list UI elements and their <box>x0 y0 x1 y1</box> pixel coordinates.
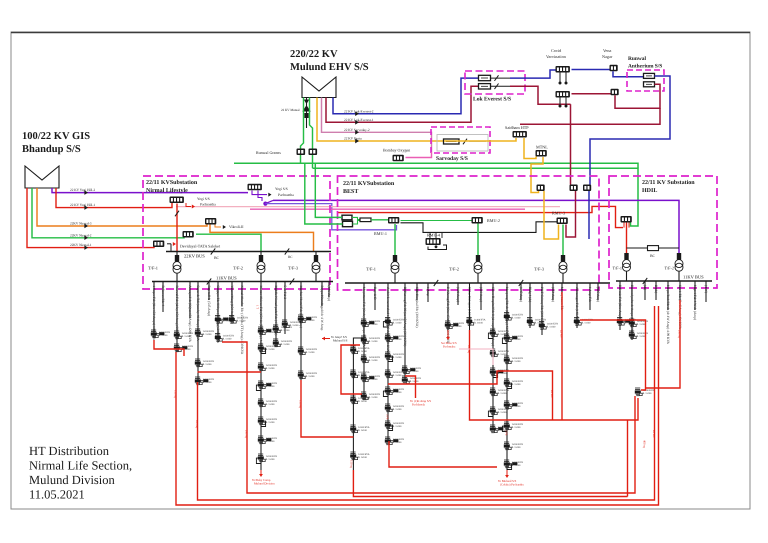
feeder H3 <box>643 281 647 300</box>
svg-text:Nil ps Tmb Fdr dr (dr 4W Amp): Nil ps Tmb Fdr dr (dr 4W Amp) 4.99 KVA <box>666 285 670 345</box>
svg-text:5 dr Fdr 2: 5 dr Fdr 2 <box>283 286 287 300</box>
red tie vertical 562 <box>561 292 563 420</box>
svg-text:R. 1x100: R. 1x100 <box>203 363 213 366</box>
svg-text:Pachraetha: Pachraetha <box>200 203 216 207</box>
wire green RMU-1 to RMU-2 <box>401 220 472 222</box>
svg-text:T/F-1: T/F-1 <box>612 266 622 271</box>
wire 22 KV Lok-Everest-2 (blue) <box>333 78 479 114</box>
connector Vena Nagar 2 <box>611 89 619 96</box>
feeder B14 Bldg 4 <box>527 283 547 328</box>
bus 11KV BUS Nirmal <box>152 281 333 283</box>
RMU-4 <box>426 238 441 245</box>
net red 22KV link to HDIL substation <box>337 206 623 227</box>
red tie y467 <box>389 441 497 467</box>
svg-text:R. 1x100: R. 1x100 <box>266 421 276 424</box>
wire maroon down to BEST connector <box>570 104 572 184</box>
substation box Runwal Anthorium (dashed) <box>627 70 664 91</box>
red tie Nirmal small A <box>154 340 184 356</box>
pins HDIL connector <box>624 223 629 228</box>
svg-text:Vena: Vena <box>603 48 612 53</box>
svg-text:R. 1x100: R. 1x100 <box>498 411 508 414</box>
feeder N9 Nirmal Absolut Fdr <box>240 282 244 355</box>
switch BEST incomer 2 <box>343 221 353 226</box>
svg-text:R. 1x100: R. 1x100 <box>498 392 508 395</box>
svg-text:22 KV Lok-Everest-1: 22 KV Lok-Everest-1 <box>344 118 374 122</box>
feeder N6 Rup taff & <box>207 282 211 317</box>
net pink feeder link 1 (salmon) <box>176 206 560 208</box>
svg-text:Rup taff & (545 Amp): Rup taff & (545 Amp) <box>207 286 211 317</box>
connector MTNL <box>536 150 547 157</box>
red tie col301 to branch353 <box>301 380 353 437</box>
transformer T/F-3 BEST <box>562 225 564 256</box>
svg-text:B (dr): B (dr) <box>654 285 658 293</box>
svg-text:Runwal Greens: Runwal Greens <box>256 150 281 155</box>
net 22KV green bus upper (green) <box>234 163 638 168</box>
connector Covid Vaccination 1 <box>556 66 570 73</box>
svg-text:11KV BUS: 11KV BUS <box>683 275 704 280</box>
svg-text:BEST: BEST <box>343 189 358 195</box>
svg-text:Vikroli-II: Vikroli-II <box>229 225 244 229</box>
wire blue Covid to Vena <box>572 69 611 71</box>
feeder N3 Ronwal Fdr <box>174 282 194 353</box>
feeder N5 Super dr Tdi <box>195 282 215 385</box>
red tie Nirmal long y372 <box>198 371 262 373</box>
svg-text:T/F-3: T/F-3 <box>534 267 545 272</box>
feeder H8 <box>704 281 708 302</box>
feeder N13 Mayfair Hostel Fdr <box>298 282 318 381</box>
wire green fuse to RMU-1 <box>371 219 388 221</box>
feeder B8 <box>456 283 460 305</box>
red arrow Nirmal deep feeder <box>260 470 262 474</box>
svg-text:Roy dr B: Roy dr B <box>373 287 377 300</box>
svg-text:Sarvoday S/S: Sarvoday S/S <box>436 156 468 162</box>
feeder B10 <box>479 283 483 310</box>
svg-text:R. 1x100: R. 1x100 <box>410 380 420 383</box>
red continuation of branch 353 to bottom ring <box>353 470 627 497</box>
feeder B15 P&T Colony Fdr <box>539 283 559 335</box>
svg-text:Puppu Khandagadd dr 4 W Amp: Puppu Khandagadd dr 4 W Amp <box>320 286 324 331</box>
svg-text:Amrapali dr (SQ as 150Amp) 420: Amrapali dr (SQ as 150Amp) 4200 KVA <box>188 286 192 343</box>
svg-text:(4 W): (4 W) <box>704 285 708 293</box>
wire maroon connector to RMU-3 <box>566 191 576 237</box>
svg-text:22 KV Mutual: 22 KV Mutual <box>281 108 300 112</box>
wire block E to 22KV bus <box>167 243 171 245</box>
svg-text:Mulund Division: Mulund Division <box>29 473 116 487</box>
feeder H4 B <box>654 281 658 300</box>
wire 22 KV Yogi Hill-2 (purple) <box>52 188 248 193</box>
substation box Nirmal Lifestyle (dashed) <box>143 176 330 289</box>
feeder B9 Cyber Dd sqmt <box>466 283 486 330</box>
feeder B13 <box>519 283 523 302</box>
svg-text:R. 1x100: R. 1x100 <box>306 375 316 378</box>
svg-text:22 KV Pantu: 22 KV Pantu <box>344 137 362 141</box>
wire pink Sarvoday to Bombay Oxygen <box>406 152 432 158</box>
feeder B20 <box>596 283 600 302</box>
svg-text:SRL Hospital Fdr (300 KVA): SRL Hospital Fdr (300 KVA) <box>415 287 419 328</box>
feeder H7 Nspt 1 Fdr 4 W dr <box>693 281 697 320</box>
svg-text:1 Amp Fdr: 1 Amp Fdr <box>588 287 592 303</box>
substation box Lok Everest S/S (dashed) <box>465 71 525 94</box>
RMU-2 <box>472 217 483 224</box>
svg-text:Yogi S/S: Yogi S/S <box>197 197 210 201</box>
transformer T/F-1 Nirmal <box>176 252 178 256</box>
svg-text:R.Sarees Fdr 4: R.Sarees Fdr 4 <box>161 286 165 307</box>
svg-text:HT Distribution: HT Distribution <box>29 444 110 458</box>
svg-text:Pachmaha: Pachmaha <box>443 345 456 349</box>
svg-text:T/F-1: T/F-1 <box>148 266 158 271</box>
svg-text:Mulund EHV S/S: Mulund EHV S/S <box>290 62 369 73</box>
wire 22 KV Lok-Everest-1 (maroon) <box>326 86 479 122</box>
svg-text:11.05.2021: 11.05.2021 <box>29 488 85 502</box>
svg-text:R. 1x100: R. 1x100 <box>393 321 403 324</box>
wire red HDIL to T/F-1 <box>626 223 628 254</box>
svg-text:22/11 KVSubstation: 22/11 KVSubstation <box>146 179 198 186</box>
feeder B4 Bi Kutong Fdr 86 <box>402 283 422 384</box>
net pink feeder link 2 (pink) <box>250 208 525 210</box>
svg-text:R. 1x100: R. 1x100 <box>498 353 508 356</box>
svg-text:Bi Kutong Fdr 86 (as 150Amp) (: Bi Kutong Fdr 86 (as 150Amp) (300 KVA) <box>403 287 407 346</box>
red arrow Sai Baba <box>447 330 449 337</box>
svg-text:100/22 KV GIS: 100/22 KV GIS <box>22 131 90 142</box>
svg-text:Mulund Division: Mulund Division <box>254 482 275 486</box>
connector Runwal Greens B <box>309 149 318 156</box>
svg-text:Vasant Marg (150 Amp): Vasant Marg (150 Amp) <box>230 286 234 319</box>
svg-text:R. 1x100: R. 1x100 <box>358 350 368 353</box>
svg-text:R. 1x100: R. 1x100 <box>637 323 647 326</box>
wire 22 KV Sarvoday-2 (pink) <box>322 98 432 153</box>
switch Runwal Anthorium 1 <box>644 73 655 78</box>
svg-text:22KV Nirmal-2: 22KV Nirmal-2 <box>70 233 92 237</box>
wire 22KV Nirmal-2 (green) <box>32 188 184 238</box>
svg-text:MTNL: MTNL <box>536 145 548 150</box>
wire maroon Covid2 to Vena2 <box>572 93 612 95</box>
svg-text:R. 1x100: R. 1x100 <box>358 456 368 459</box>
pins RMU-4 <box>430 232 442 238</box>
bus 22KV BUS Nirmal <box>166 251 331 253</box>
wire green incomer 2 <box>305 163 343 224</box>
switch Runwal Anthorium 2 <box>644 82 655 87</box>
svg-text:Ishapong Fdr dr (150 Amp) 430: Ishapong Fdr dr (150 Amp) 430 KVA <box>505 287 509 339</box>
svg-text:(100 Amp): (100 Amp) <box>456 287 460 302</box>
wire purple HDIL to T/F-2 joint <box>678 248 680 253</box>
bus 11KV BUS BEST <box>345 282 610 284</box>
svg-text:22/11 KV Substation: 22/11 KV Substation <box>642 179 695 186</box>
svg-text:Mulund S/S: Mulund S/S <box>333 339 348 343</box>
red arrow To Amps Mulund <box>322 337 325 341</box>
svg-text:3 Ph: 3 Ph <box>386 414 390 420</box>
pins Covid 1 <box>560 73 566 83</box>
svg-text:T/F-2: T/F-2 <box>233 266 243 271</box>
feeder N11 Middle Nirmal pada Fdr <box>273 282 293 348</box>
svg-text:R. 1x100: R. 1x100 <box>281 343 291 346</box>
feeder N2 R.Sarees Fdr 4 <box>161 282 165 313</box>
feeder B16 <box>551 283 555 302</box>
connector Devidayal (green fed) <box>183 231 194 238</box>
svg-text:RMU-4: RMU-4 <box>427 233 441 238</box>
svg-text:11KV BUS: 11KV BUS <box>216 276 237 281</box>
svg-text:1 Super Fdr (Occ 150 Amps) 100: 1 Super Fdr (Occ 150 Amps) 1000KVA <box>152 286 156 341</box>
transformer T/F-2 HDIL <box>677 253 681 260</box>
feeder N7 Singapu Fdr 900 ps <box>215 282 235 344</box>
svg-text:RMU-1: RMU-1 <box>374 231 387 236</box>
svg-text:(4 W Amp): (4 W Amp) <box>327 286 331 302</box>
svg-text:RMU-3: RMU-3 <box>552 211 565 216</box>
net purple 22KV link to HDIL <box>273 200 679 248</box>
feeder B2 Roy dr B <box>373 283 377 310</box>
connector Yogi S/S Pachraetha A (red fed) <box>170 197 184 204</box>
red cable size labels <box>174 305 682 468</box>
svg-text:T/F-2: T/F-2 <box>449 267 459 272</box>
wire Runwal Greens feeder B (green) <box>310 98 313 150</box>
svg-text:Bombay Oxygen: Bombay Oxygen <box>383 148 410 153</box>
switch Lok Everest feeder 1 (maroon row) <box>479 84 491 89</box>
transformer Mulund EHV <box>302 77 336 98</box>
svg-text:Nirmal Life Section,: Nirmal Life Section, <box>29 459 132 473</box>
wire gold Saidham to MTNL <box>524 138 536 159</box>
red arrow To Mulund receiving <box>506 470 508 475</box>
svg-text:3 Ph: 3 Ph <box>505 430 509 436</box>
svg-text:Pachbawla: Pachbawla <box>412 403 426 407</box>
svg-text:R. 1x100: R. 1x100 <box>393 356 403 359</box>
feeder H1 R.S min Fdr <box>617 281 637 330</box>
svg-text:Vaccination: Vaccination <box>546 54 567 59</box>
svg-text:220/22 KV: 220/22 KV <box>290 49 338 60</box>
svg-text:HDIL: HDIL <box>642 188 657 194</box>
connector BEST yellow incomer <box>537 185 545 192</box>
svg-text:Antherium S/S: Antherium S/S <box>628 64 662 70</box>
feeder B17 Moneytraum Fdr <box>560 283 564 311</box>
svg-text:400 sq: 400 sq <box>643 440 647 448</box>
wire orange to 22KV bus at TF-3 <box>210 225 314 252</box>
substation box BEST (dashed) <box>338 176 600 290</box>
wire maroon return west <box>520 108 660 124</box>
svg-text:R. 1x100: R. 1x100 <box>223 337 233 340</box>
cluster bottom junction near HDIL <box>635 388 655 396</box>
svg-text:R. 1x100: R. 1x100 <box>393 425 403 428</box>
svg-text:(Colaba) Pachandra: (Colaba) Pachandra <box>500 483 524 487</box>
svg-text:R. 1x100: R. 1x100 <box>266 367 276 370</box>
wire blue Vena to Runwal Anthorium <box>613 71 644 77</box>
substation box Sarvoday S/S (dashed) <box>431 127 490 153</box>
svg-text:Covid: Covid <box>551 48 562 53</box>
connector BEST blue incomer <box>583 185 591 192</box>
substation box HDIL (dashed) <box>609 176 717 288</box>
svg-text:R. 1x100: R. 1x100 <box>369 396 379 399</box>
svg-text:Annanagar Fdr (148 Amp): Annanagar Fdr (148 Amp) <box>575 287 579 324</box>
svg-text:(dr): (dr) <box>643 285 647 290</box>
wire black RMU chain <box>401 222 557 233</box>
svg-text:R. 1x100: R. 1x100 <box>266 403 276 406</box>
svg-text:1 T: 1 T <box>256 305 260 309</box>
switch Lok Everest feeder 2 (blue row) <box>479 75 491 80</box>
svg-text:R. 1x100: R. 1x100 <box>637 335 647 338</box>
wire purple B to junction <box>258 191 262 202</box>
transformer T/F-1 BEST <box>394 224 396 255</box>
bus coupler tie HDIL <box>627 247 680 249</box>
feeder N15 <box>327 282 331 302</box>
wire green D to bus at TF-2 <box>196 234 261 251</box>
svg-text:(147 Amp): (147 Amp) <box>519 287 523 302</box>
connector Runwal Greens A <box>297 149 306 156</box>
svg-text:22 KV Lok-Everest-2: 22 KV Lok-Everest-2 <box>344 109 374 113</box>
svg-text:R. 1x100: R. 1x100 <box>547 325 557 328</box>
feeder B18 Annanagar Fdr <box>574 283 594 328</box>
svg-text:Devidayal-TATA Saloket: Devidayal-TATA Saloket <box>180 244 221 249</box>
feeder B19 1 Amp Fdr <box>588 283 592 310</box>
wire 22KV Nirmal-3 (orange) <box>37 188 207 226</box>
svg-text:BC: BC <box>650 254 656 258</box>
svg-text:Runwal: Runwal <box>628 56 646 62</box>
red tie L1 TF-1 feeder to bottom ring <box>176 306 659 505</box>
feeder N12 5 dr Fdr 2 <box>282 282 302 335</box>
red tie L2 <box>198 306 655 500</box>
svg-text:22KV Nirmal-3: 22KV Nirmal-3 <box>70 222 92 226</box>
transformer T/F-2 BEST <box>477 224 479 256</box>
svg-text:R. 1x100: R. 1x100 <box>512 446 522 449</box>
svg-text:Senor Hospital Fdr 8 (dr reqd: Senor Hospital Fdr 8 (dr reqd dr 150 Amp… <box>491 287 495 346</box>
red tie HDIL y320 to cluster <box>580 320 646 390</box>
svg-text:R. 1x100: R. 1x100 <box>306 351 316 354</box>
transformer T/F-1 HDIL <box>624 253 628 260</box>
svg-text:(107 Amp): (107 Amp) <box>596 287 600 302</box>
net 22KV green bus lower to HDIL (green) <box>313 168 639 226</box>
transformer T/F-3 Nirmal <box>315 252 317 256</box>
arrow Yogi A <box>186 203 191 207</box>
svg-text:R. 1x100: R. 1x100 <box>512 383 522 386</box>
wire purple B drop <box>252 191 267 195</box>
RMU-3 <box>557 218 568 225</box>
svg-text:R. 1x100: R. 1x100 <box>512 360 522 363</box>
RMU-1 <box>388 217 399 224</box>
svg-text:R. 1x100: R. 1x100 <box>358 429 368 432</box>
wire gold connector to RMU-3 <box>544 191 559 239</box>
wire greens to 22KV green bus <box>300 155 302 163</box>
feeder N14 Puppu Khandagadd dr 4 <box>320 282 324 331</box>
svg-text:R. 1x100: R. 1x100 <box>582 321 592 324</box>
svg-text:R. 1x100: R. 1x100 <box>266 348 276 351</box>
svg-text:T/F-1: T/F-1 <box>366 267 376 272</box>
svg-text:R. 1x100: R. 1x100 <box>369 340 379 343</box>
svg-text:R. 1x100: R. 1x100 <box>512 426 522 429</box>
switch Sarvoday <box>444 139 460 144</box>
svg-text:Nspt 1 Fdr 4 W dr (Amp): Nspt 1 Fdr 4 W dr (Amp) <box>693 285 697 320</box>
feeder N4 Amrapali dr <box>188 282 192 343</box>
svg-text:22KV BUS: 22KV BUS <box>184 254 205 259</box>
transformer T/F-2 Nirmal <box>260 252 262 256</box>
svg-text:22/11 KVSubstation: 22/11 KVSubstation <box>343 180 395 187</box>
connector TATA Saloket (red fed) <box>153 241 164 248</box>
connector Vikroli-II (orange fed) <box>205 218 216 225</box>
switch BEST incomer 1 <box>342 215 352 220</box>
feeder B11 Senor Hospital Fdr 8 <box>488 283 509 433</box>
transformer Bhandup GIS <box>25 166 59 188</box>
junction purple node <box>265 200 273 203</box>
feeder N10 Micato Abicon Fdr <box>256 282 277 471</box>
connector Yogi S/S Pachraetha B (purple fed) <box>248 184 262 191</box>
svg-text:Nagar: Nagar <box>602 54 613 59</box>
red tie BEST hook left <box>341 345 362 394</box>
wire maroon Vena2 to Runwal and return <box>615 84 660 108</box>
red tie L4 <box>470 330 639 420</box>
feeder branch column 353 (black) with clusters <box>350 338 370 470</box>
svg-text:BC: BC <box>214 256 220 260</box>
svg-text:Nirmal Absolut Fdr (150 ds (TT: Nirmal Absolut Fdr (150 ds (TT) Amp) 4.3… <box>240 286 244 355</box>
wire 22 KV Mutual (black) with disconnect arrows <box>306 98 308 129</box>
svg-text:R. 1x100: R. 1x100 <box>203 333 213 336</box>
wire 22 KV Yogi Hill-1 (red) <box>56 188 172 208</box>
feeder N1 1 Super Fdr <box>151 282 171 341</box>
connector Saidham HTP <box>513 131 527 138</box>
feeder H2 Runwal palm dr Amps <box>629 281 649 340</box>
wire blue stub down <box>588 191 590 239</box>
feeder B12 Ishapong Fdr dr <box>502 283 523 470</box>
stub RMU-4 bottom <box>428 245 447 250</box>
svg-text:R. 1x100: R. 1x100 <box>358 374 368 377</box>
svg-text:T/F-3: T/F-3 <box>288 266 299 271</box>
net violet link (lavender) <box>265 204 396 230</box>
svg-text:R. 1x100: R. 1x100 <box>512 316 522 319</box>
svg-text:RMU-2: RMU-2 <box>487 218 500 223</box>
feeder B6 1 Amp <box>426 283 430 302</box>
svg-text:Bhandup S/S: Bhandup S/S <box>22 144 81 155</box>
red tie BEST y384 <box>388 371 553 420</box>
svg-text:R. 1x100: R. 1x100 <box>266 458 276 461</box>
svg-text:Pachraetha: Pachraetha <box>278 193 294 197</box>
red drop 415 <box>405 376 416 398</box>
svg-text:(110 Amp): (110 Amp) <box>479 287 483 302</box>
svg-text:BC: BC <box>288 255 293 259</box>
wire green incomer 1 <box>315 163 342 217</box>
svg-text:R.S min Fdr (Occ Amp): R.S min Fdr (Occ Amp) <box>618 285 622 318</box>
svg-text:22KV Nirmal-1: 22KV Nirmal-1 <box>70 243 92 247</box>
wire blue Runwal to BEST connector (long) <box>590 76 670 185</box>
pins Covid 2 <box>560 98 566 106</box>
wire 22KV Nirmal-1 (red) <box>27 188 154 248</box>
wire 22 KV Pantu (gold) <box>317 98 444 142</box>
svg-text:R. 1x100: R. 1x100 <box>290 324 300 327</box>
connector Covid Vaccination 2 <box>556 91 570 98</box>
inner frame Sarvoday <box>437 135 488 152</box>
svg-text:Nirmal Lifestyle: Nirmal Lifestyle <box>146 187 188 194</box>
svg-text:R. 1x100: R. 1x100 <box>393 408 403 411</box>
connector Bombay Oxygen <box>393 155 404 162</box>
svg-text:1 Amp: 1 Amp <box>426 287 430 297</box>
svg-text:R. 1x100: R. 1x100 <box>393 374 403 377</box>
svg-text:Ronwal Fdr (dr by 150 Amp) 990: Ronwal Fdr (dr by 150 Amp) 990 KVA <box>175 286 179 341</box>
svg-text:Acchit Lonext abcd 1 dr (1499: Acchit Lonext abcd 1 dr (1499 Amp) 990 K… <box>386 287 390 352</box>
wire gold MTNL down to BEST yellow connector <box>531 157 543 193</box>
svg-text:T/F-2: T/F-2 <box>664 266 674 271</box>
fuse BEST <box>352 217 360 224</box>
salmon loop <box>459 349 493 365</box>
svg-text:R. 1x100: R. 1x100 <box>474 321 484 324</box>
svg-text:R. 1x100: R. 1x100 <box>358 400 368 403</box>
feeder H6 Spc 1 Fdr <box>678 281 682 330</box>
connector HDIL red incomer <box>621 216 632 223</box>
feeder B3 Acchit Lonext abcd 1 d <box>383 283 404 445</box>
red tie L3 <box>222 342 635 493</box>
svg-text:R. 1x100: R. 1x100 <box>643 392 653 395</box>
red tie branch 627 <box>627 420 629 497</box>
wire Runwal Greens feeder A (green) <box>301 98 304 150</box>
feeder B7 P. Khemg Fdr <box>445 283 465 344</box>
bus 11KV BUS HDIL <box>616 280 712 282</box>
svg-text:(164 Amp): (164 Amp) <box>551 287 555 302</box>
svg-text:22 KV Yogi Hill-2: 22 KV Yogi Hill-2 <box>70 188 95 192</box>
svg-text:R. 1x100: R. 1x100 <box>369 359 379 362</box>
connector BEST maroon incomer <box>570 185 578 192</box>
feeder B5 SRL Hospital Fdr <box>415 283 419 328</box>
